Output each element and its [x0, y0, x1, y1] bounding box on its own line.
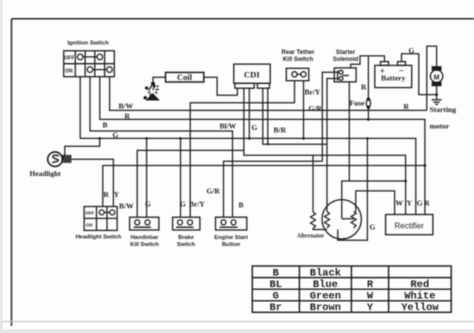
wire coil to CDI [204, 77, 238, 95]
labels G Br/Y above brake switch [180, 199, 205, 208]
svg-text:ON: ON [65, 68, 73, 74]
color table text [270, 267, 440, 314]
svg-text:White: White [404, 291, 435, 303]
svg-text:Ignition Switch: Ignition Switch [67, 41, 109, 47]
wire CDI pin4 to alternator exciter coil [263, 88, 327, 211]
svg-text:Starter: Starter [336, 50, 356, 56]
svg-text:G: G [370, 222, 376, 231]
svg-text:G/R: G/R [309, 104, 323, 113]
color table grid [252, 266, 451, 312]
svg-text:OFF: OFF [64, 55, 74, 61]
svg-text:R: R [125, 111, 131, 120]
wire tether right to G bus [303, 81, 305, 139]
starting motor symbol [430, 67, 442, 86]
svg-text:Br: Br [270, 302, 282, 314]
svg-text:R: R [404, 102, 410, 111]
svg-text:G: G [409, 46, 415, 55]
svg-text:motor: motor [430, 121, 450, 130]
spark plug symbol [144, 82, 159, 100]
wire headlight to switch Y [71, 159, 114, 206]
wire solenoid coil B to exciter line [327, 79, 338, 145]
svg-text:W: W [396, 199, 404, 208]
headlight connector [62, 155, 72, 163]
svg-text:G: G [145, 199, 151, 208]
wire coil to spark plug [153, 77, 166, 83]
svg-text:Bl/W: Bl/W [220, 122, 237, 131]
wire battery plus to solenoid [351, 56, 385, 68]
junction brake G on G bus [179, 137, 182, 140]
wire G/R start button line [224, 161, 323, 217]
wire solenoid output down to Y line [348, 82, 350, 181]
svg-text:Kill Switch: Kill Switch [130, 242, 159, 248]
svg-text:Y: Y [407, 199, 413, 208]
svg-text:Red: Red [411, 279, 430, 291]
svg-text:B: B [239, 200, 244, 209]
labels W Y G R above rectifier [396, 199, 431, 208]
headlight switch contacts [99, 210, 115, 215]
wire pickup to left coil bottom [313, 229, 327, 230]
svg-text:G: G [113, 130, 119, 139]
wire motor to ground [436, 83, 438, 99]
svg-text:Br/Y: Br/Y [305, 88, 321, 97]
svg-text:Solenoid: Solenoid [333, 57, 359, 63]
wire fuse branch [367, 56, 369, 120]
svg-text:Y: Y [367, 302, 374, 314]
svg-text:CDI: CDI [244, 69, 260, 79]
junction headlight R line on rectifier R drop [424, 164, 427, 167]
wire tether left Br/Y line to brake switch [190, 81, 294, 218]
svg-text:B: B [103, 121, 108, 130]
handlebar kill switch box [130, 217, 159, 230]
wire B/W bus (ignition col4 down, right across to starting motor riser) [110, 77, 427, 111]
svg-text:G: G [252, 123, 258, 132]
svg-text:+: + [380, 66, 385, 76]
ignition switch OFF row contacts [77, 54, 102, 60]
svg-text:Kill Switch: Kill Switch [283, 57, 314, 63]
junction headlight on G bus [98, 137, 101, 140]
wire center tap to G riser [338, 138, 368, 240]
svg-text:G/R: G/R [207, 187, 221, 196]
svg-text:Switch: Switch [177, 242, 196, 248]
wire B/W branch to handlebar kill switch [137, 150, 244, 217]
svg-text:Br/Y: Br/Y [189, 199, 205, 208]
svg-text:B: B [273, 267, 280, 279]
rear tether kill switch box [286, 68, 309, 80]
labels R Y above headlight switch [104, 190, 120, 199]
battery polarity marks [380, 66, 404, 77]
svg-text:Fuse: Fuse [350, 98, 366, 107]
svg-text:R: R [367, 279, 374, 291]
wire headlight to G bus [65, 138, 100, 155]
svg-text:Rear Tether: Rear Tether [282, 50, 316, 56]
wire CDI pin3 G to G bus [248, 88, 250, 138]
svg-text:−: − [399, 66, 404, 76]
handlebar kill switch label [130, 235, 159, 248]
svg-text:OFF: OFF [85, 211, 94, 216]
ignition switch ON row contacts [87, 67, 112, 73]
alternator circle [322, 200, 361, 239]
ground symbol [432, 100, 442, 105]
brake switch label [177, 235, 196, 248]
wire pickup coil up to Br/Y line [312, 155, 314, 212]
svg-text:G: G [180, 199, 186, 208]
svg-text:B/R: B/R [274, 125, 287, 134]
headlight switch OFF/ON labels [85, 211, 94, 228]
CDI area wire labels [220, 122, 287, 135]
svg-text:Engine Start: Engine Start [214, 235, 248, 241]
wire kill switch G to G bus [146, 138, 148, 217]
junction kill G on G bus [145, 137, 148, 140]
wire battery minus to motor ground [402, 54, 437, 95]
junction pin5 on exciter line [267, 143, 269, 145]
svg-text:Yellow: Yellow [401, 302, 439, 314]
wire CDI pin1 stub to coil [236, 88, 238, 95]
svg-text:Starting: Starting [430, 105, 457, 114]
labels B/W G above kill switch [119, 199, 151, 210]
junction battery minus / motor ground [435, 93, 438, 96]
headlight switch box [84, 207, 117, 231]
starting motor label [430, 105, 457, 130]
wire R riser to motor [427, 46, 437, 110]
pickup coil outside [311, 212, 316, 229]
wire B bus (ignition col2 down, right and down to engine start button) [90, 77, 233, 218]
svg-text:Black: Black [310, 267, 341, 279]
svg-text:Rectifier: Rectifier [395, 221, 425, 230]
ignition switch box [64, 51, 115, 77]
svg-text:R: R [424, 199, 430, 208]
engine start button label [214, 235, 248, 248]
svg-text:ON: ON [86, 223, 93, 228]
wire G bus (ignition col1 down, right to rectifier G drop) [80, 77, 416, 215]
engine start button box [216, 217, 247, 230]
headlight bulb [48, 152, 63, 167]
wire alternator Y line to rectifier Y drop [342, 181, 406, 219]
wire R bus (ignition col3 down, right to rectifier R drop) [100, 77, 425, 215]
fuse symbol [366, 98, 370, 108]
svg-text:Handlebar: Handlebar [131, 235, 160, 241]
junction fuse on R bus [367, 118, 370, 121]
wire brake G to G bus [180, 138, 182, 217]
wire right coil to rectifier W [356, 191, 395, 215]
wire R headlight line [103, 166, 425, 207]
svg-text:Brake: Brake [178, 235, 194, 241]
svg-text:Brown: Brown [310, 302, 341, 314]
svg-text:R: R [104, 190, 110, 199]
svg-text:Headlight Switch: Headlight Switch [76, 235, 122, 241]
svg-text:M: M [434, 74, 440, 81]
svg-text:G: G [273, 291, 279, 303]
wire solenoid coil A to start button G/R line [322, 72, 337, 161]
battery box [375, 62, 412, 88]
svg-text:W: W [367, 291, 374, 303]
starter solenoid label [333, 50, 359, 63]
bus wire labels near ignition [103, 102, 134, 140]
junction tether on G bus [302, 137, 305, 140]
svg-text:B/W: B/W [119, 201, 134, 210]
rectifier box [386, 215, 433, 235]
svg-text:Headlight: Headlight [30, 169, 62, 178]
junction alternator G on G bus [366, 137, 369, 140]
coil box [166, 72, 204, 82]
svg-text:R: R [361, 83, 367, 92]
wire CDI pin5 to exciter line [267, 88, 269, 144]
alternator left coil [325, 212, 330, 229]
junction CDI G on G bus [248, 137, 251, 140]
svg-text:B/W: B/W [119, 102, 134, 111]
svg-text:Alternator: Alternator [297, 234, 325, 240]
rear tether kill switch label [282, 50, 316, 63]
svg-text:Coil: Coil [177, 73, 193, 82]
svg-text:Blue: Blue [313, 279, 338, 291]
svg-text:Y: Y [114, 190, 120, 199]
CDI box [234, 64, 270, 88]
svg-text:G: G [417, 199, 423, 208]
svg-text:BL: BL [270, 279, 282, 291]
svg-text:Green: Green [310, 291, 341, 303]
alternator right coil [351, 212, 356, 229]
junction Y line on rectifier Y drop [404, 180, 407, 183]
wire CDI pin2 down, to rectifier Y line [244, 88, 406, 214]
brake switch box [173, 217, 200, 230]
svg-text:Button: Button [222, 242, 241, 248]
starter solenoid box [334, 68, 356, 82]
ignition switch OFF / ON labels [64, 55, 74, 74]
